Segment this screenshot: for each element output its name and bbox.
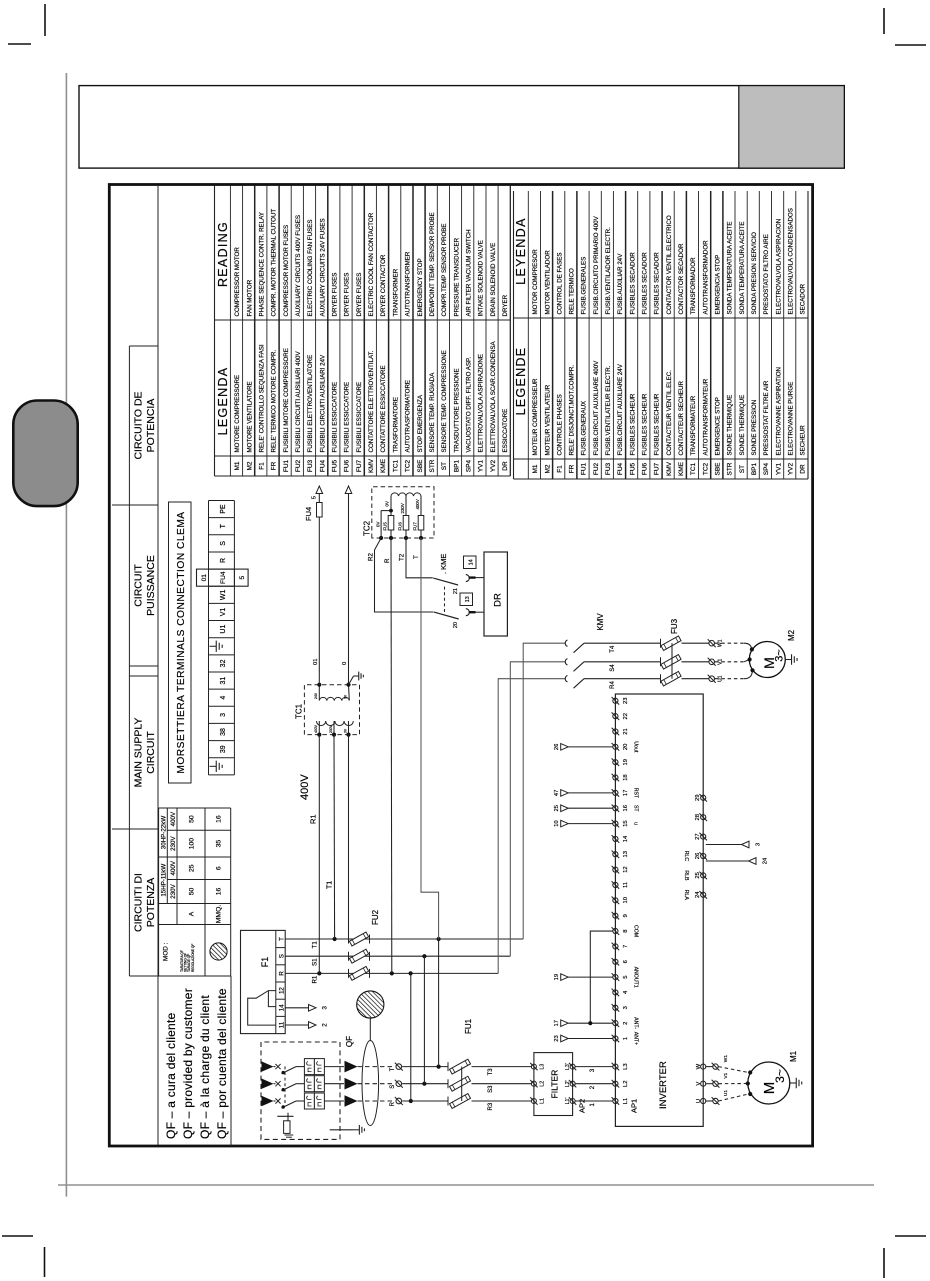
wire to point 25 bbox=[554, 805, 613, 812]
svg-text:ELECTRIC COOL FAN CONTACTOR: ELECTRIC COOL FAN CONTACTOR bbox=[368, 212, 375, 316]
svg-text:FR: FR bbox=[569, 464, 576, 473]
svg-text:INTAKE SOLENOID VALVE: INTAKE SOLENOID VALVE bbox=[478, 240, 485, 316]
svg-text:DR: DR bbox=[800, 464, 807, 474]
svg-text:COMPR. MOTOR THERMAL CUTOUT: COMPR. MOTOR THERMAL CUTOUT bbox=[271, 209, 278, 317]
svg-text:FUSIBLES SECADOR: FUSIBLES SECADOR bbox=[642, 252, 649, 315]
svg-text:FU5: FU5 bbox=[383, 522, 388, 531]
fuse bank FU2 bbox=[349, 932, 370, 980]
svg-text:READING: READING bbox=[216, 221, 230, 287]
svg-text:MOD :: MOD : bbox=[163, 942, 170, 961]
filter to inverter wires 1 2 3 bbox=[575, 1067, 612, 1107]
svg-text:AUTOTRANSFORMADOR: AUTOTRANSFORMADOR bbox=[702, 240, 709, 315]
svg-text:SENSORE TEMP. RUGIADA: SENSORE TEMP. RUGIADA bbox=[429, 372, 436, 453]
svg-text:TRANSFORMER: TRANSFORMER bbox=[392, 268, 399, 316]
fan motor M2 bbox=[749, 642, 785, 678]
svg-text:FILTER: FILTER bbox=[550, 1070, 560, 1099]
supply lead S with isolation point bbox=[358, 1080, 449, 1089]
section label CIRCUIT PUISSANCE bbox=[133, 555, 158, 616]
transformer TC1 bbox=[304, 683, 359, 737]
KME terminal 13 box bbox=[460, 593, 473, 606]
wire R1 (F1 to FU2 to KMV) bbox=[285, 972, 498, 974]
M2 terminals U1 V1 W1 bbox=[708, 639, 724, 683]
svg-text:ST: ST bbox=[633, 805, 639, 812]
svg-text:11: 11 bbox=[623, 882, 629, 888]
svg-text:COMPRESSOR MOTOR: COMPRESSOR MOTOR bbox=[234, 247, 241, 317]
svg-text:BP1: BP1 bbox=[751, 462, 758, 475]
svg-text:T: T bbox=[220, 523, 227, 528]
svg-text:AUXILIARY CIRCUITS 24V FUSES: AUXILIARY CIRCUITS 24V FUSES bbox=[319, 218, 326, 316]
svg-text:R1: R1 bbox=[312, 975, 319, 983]
fuse bank FU3 bbox=[661, 636, 709, 686]
svg-text:SONDE THERMIQUE: SONDE THERMIQUE bbox=[739, 395, 746, 456]
QF notes text bbox=[164, 988, 229, 1139]
svg-text:ELETTROVALVOLA ASPIRAZIONE: ELETTROVALVOLA ASPIRAZIONE bbox=[478, 354, 485, 452]
cable table text bbox=[160, 811, 222, 923]
svg-text:ELECTRIC COOLING FAN FUSES: ELECTRIC COOLING FAN FUSES bbox=[307, 220, 314, 317]
relay stub wires 24 / 3 bbox=[706, 841, 769, 864]
QF handle linkage ellipse bbox=[362, 1041, 379, 1126]
svg-text:STOP EMERGENZA: STOP EMERGENZA bbox=[417, 394, 424, 452]
svg-text:22: 22 bbox=[623, 713, 629, 719]
section label CIRCUITI DI POTENZA bbox=[133, 873, 158, 932]
svg-text:KMV: KMV bbox=[596, 613, 605, 631]
svg-text:FU7: FU7 bbox=[413, 522, 418, 531]
svg-text:SONDE THERMIQUE: SONDE THERMIQUE bbox=[727, 395, 734, 456]
svg-text:FUSIBILI ESSICCATORE: FUSIBILI ESSICCATORE bbox=[332, 382, 339, 453]
inverter AP1 box bbox=[615, 694, 703, 1126]
svg-text:MOTOR COMPRESOR: MOTOR COMPRESOR bbox=[532, 249, 539, 315]
svg-text:S: S bbox=[278, 954, 285, 958]
svg-text:MORSETTIERA TERMINALS CONNECTI: MORSETTIERA TERMINALS CONNECTION CLEMA bbox=[176, 511, 187, 773]
svg-text:SBE: SBE bbox=[715, 462, 722, 476]
svg-text:STR: STR bbox=[429, 459, 436, 472]
KMV contact S4 bbox=[565, 659, 660, 672]
svg-text:KMV: KMV bbox=[666, 461, 673, 476]
svg-text:YV2: YV2 bbox=[490, 459, 497, 472]
schematic sheet border bbox=[109, 185, 812, 1147]
svg-text:18: 18 bbox=[623, 774, 629, 780]
svg-text:TC2: TC2 bbox=[405, 459, 412, 472]
svg-text:13: 13 bbox=[623, 851, 629, 857]
svg-text:25: 25 bbox=[554, 805, 560, 811]
svg-text:ST: ST bbox=[739, 465, 746, 473]
svg-text:EMERGENCY STOP: EMERGENCY STOP bbox=[417, 258, 424, 316]
svg-text:L3': L3' bbox=[565, 1063, 571, 1070]
svg-text:A: A bbox=[189, 911, 196, 916]
circuit breaker QF dashed enclosure bbox=[261, 1042, 340, 1139]
svg-text:15: 15 bbox=[623, 820, 629, 826]
svg-text:TC1: TC1 bbox=[295, 703, 304, 719]
svg-text:L1: L1 bbox=[540, 1098, 546, 1104]
wire to point 17 bbox=[554, 1020, 613, 1027]
svg-text:CONTACTEUR VENTIL.ELEC.: CONTACTEUR VENTIL.ELEC. bbox=[666, 370, 673, 456]
svg-text:QF – a cura del cliente: QF – a cura del cliente bbox=[164, 1012, 178, 1139]
svg-text:W1: W1 bbox=[220, 589, 227, 600]
wire labels R3 S3 T3 bbox=[488, 1068, 494, 1111]
svg-text:FUSIB.CIRCUIT AUXILIARE 24V: FUSIB.CIRCUIT AUXILIARE 24V bbox=[617, 363, 624, 455]
svg-text:FU4: FU4 bbox=[304, 507, 313, 521]
svg-text:F1: F1 bbox=[556, 465, 563, 473]
svg-text:FUSIBILI ESSICCATORE: FUSIBILI ESSICCATORE bbox=[356, 382, 363, 453]
QF earth lead and ground bbox=[330, 1125, 365, 1135]
svg-text:TRANSFORMADOR: TRANSFORMADOR bbox=[690, 257, 697, 315]
KMV contact R4 bbox=[565, 676, 660, 689]
legend table LEGENDE/LEYENDA bbox=[514, 191, 809, 479]
svg-text:16: 16 bbox=[623, 805, 629, 811]
svg-text:0V: 0V bbox=[344, 728, 348, 733]
svg-text:S1: S1 bbox=[312, 958, 319, 966]
svg-text:FU5: FU5 bbox=[332, 459, 339, 472]
svg-text:CIRCUIT: CIRCUIT bbox=[133, 564, 145, 607]
wire R (TC2 to R1 junction) bbox=[384, 538, 392, 973]
svg-text:FUSIBLES SECADOR: FUSIBLES SECADOR bbox=[654, 252, 661, 315]
svg-text:2: 2 bbox=[623, 1022, 629, 1025]
svg-text:T1: T1 bbox=[312, 941, 319, 949]
svg-text:QF – à la charge du client: QF – à la charge du client bbox=[198, 995, 212, 1139]
autotransformer TC2 bbox=[372, 487, 434, 540]
svg-text:BP1: BP1 bbox=[453, 459, 460, 472]
svg-text:FU6: FU6 bbox=[398, 522, 403, 531]
svg-text:T: T bbox=[390, 1067, 396, 1071]
svg-text:FU4: FU4 bbox=[220, 571, 227, 584]
svg-text:M1: M1 bbox=[532, 464, 539, 473]
svg-text:ELECTROVANNE ASPIRATION: ELECTROVANNE ASPIRATION bbox=[775, 367, 782, 455]
svg-text:VACUOSTATO DIFF. FILTRO ASP.: VACUOSTATO DIFF. FILTRO ASP. bbox=[465, 357, 472, 453]
svg-text:RELE TERMICO: RELE TERMICO bbox=[569, 268, 576, 314]
svg-text:DRYER: DRYER bbox=[502, 294, 509, 316]
wire to point 23 bbox=[554, 1035, 613, 1042]
svg-text:15HP-11kW: 15HP-11kW bbox=[160, 864, 167, 897]
svg-text:24: 24 bbox=[695, 891, 701, 898]
QF customer notes box bbox=[159, 976, 231, 1146]
wire T1 bbox=[285, 938, 523, 940]
svg-text:FU3: FU3 bbox=[605, 462, 612, 475]
svg-text:1: 1 bbox=[623, 1037, 629, 1040]
svg-text:400V: 400V bbox=[415, 499, 420, 509]
svg-text:DRAIN SOLENOID VALVE: DRAIN SOLENOID VALVE bbox=[490, 243, 497, 317]
svg-text:ELECTROVANNE PURGE: ELECTROVANNE PURGE bbox=[788, 382, 795, 456]
svg-text:230V: 230V bbox=[170, 836, 177, 851]
svg-text:RELE' CONTROLLO SEQUENZA FASI: RELE' CONTROLLO SEQUENZA FASI bbox=[259, 344, 266, 452]
svg-text:ELECTROVALVOLA ASPIRACION: ELECTROVALVOLA ASPIRACION bbox=[775, 219, 782, 315]
svg-text:TC2: TC2 bbox=[363, 520, 372, 536]
svg-text:26: 26 bbox=[695, 853, 701, 859]
svg-text:RLA: RLA bbox=[683, 890, 689, 901]
svg-text:100: 100 bbox=[189, 838, 196, 850]
junction dots on supply rails bbox=[409, 1099, 413, 1103]
svg-text:FUSIBILI ELETTROVENTILATORE: FUSIBILI ELETTROVENTILATORE bbox=[307, 355, 314, 453]
svg-text:3: 3 bbox=[756, 843, 762, 846]
svg-text:INVERTER: INVERTER bbox=[658, 1061, 669, 1109]
svg-text:39: 39 bbox=[220, 745, 227, 753]
wire labels R1 S1 T1 bbox=[312, 941, 319, 984]
COM link wire bbox=[588, 931, 613, 1025]
phase sequence relay F1 bbox=[241, 930, 286, 1033]
svg-text:24V: 24V bbox=[314, 692, 318, 699]
MOD cell bbox=[163, 942, 195, 972]
svg-text:CONTACTEUR SECHEUR: CONTACTEUR SECHEUR bbox=[678, 380, 685, 455]
svg-text:R3: R3 bbox=[488, 1102, 494, 1110]
svg-text:12: 12 bbox=[623, 866, 629, 872]
svg-text:KMV: KMV bbox=[368, 458, 375, 473]
contactor KME contact 21 bbox=[433, 575, 484, 595]
svg-text:30HP-22kW: 30HP-22kW bbox=[160, 816, 167, 850]
svg-text:MMQ.: MMQ. bbox=[216, 905, 223, 924]
svg-text:S3: S3 bbox=[488, 1085, 494, 1093]
relay terminals 24-29 bbox=[683, 794, 707, 900]
svg-text:YV1: YV1 bbox=[775, 462, 782, 475]
svg-text:23: 23 bbox=[554, 1035, 560, 1041]
svg-text:SONDE PRESSION: SONDE PRESSION bbox=[751, 400, 758, 456]
svg-text:FU5: FU5 bbox=[629, 462, 636, 475]
svg-text:MOTEUR COMPRESSEUR: MOTEUR COMPRESSEUR bbox=[532, 378, 539, 456]
svg-text:AUXILIARY CIRCUITS 400V FUSES: AUXILIARY CIRCUITS 400V FUSES bbox=[295, 215, 302, 317]
svg-text:QF – provided by customer: QF – provided by customer bbox=[181, 988, 195, 1139]
TC1 feed lines bbox=[319, 735, 348, 974]
FU4 terminal block (01/FU4/5) bbox=[197, 569, 249, 586]
svg-text:31: 31 bbox=[220, 677, 227, 685]
svg-text:S: S bbox=[390, 1085, 396, 1089]
svg-text:DRYER FUSES: DRYER FUSES bbox=[332, 273, 339, 317]
svg-text:M2: M2 bbox=[787, 629, 796, 641]
svg-text:0: 0 bbox=[342, 662, 348, 665]
svg-text:MOTOR VENTILADOR: MOTOR VENTILADOR bbox=[544, 250, 551, 315]
svg-text:FUSIBLES SECHEUR: FUSIBLES SECHEUR bbox=[629, 393, 636, 455]
svg-text:L2': L2' bbox=[565, 1080, 571, 1087]
svg-text:FU1: FU1 bbox=[464, 1018, 473, 1034]
svg-text:SONDA PRESION SERVICIO: SONDA PRESION SERVICIO bbox=[751, 232, 758, 315]
svg-text:5: 5 bbox=[239, 576, 246, 580]
svg-text:RLC: RLC bbox=[683, 851, 689, 862]
svg-text:KME: KME bbox=[678, 461, 685, 476]
svg-text:38: 38 bbox=[220, 728, 227, 736]
svg-text:14: 14 bbox=[623, 835, 629, 842]
svg-text:0V: 0V bbox=[344, 694, 348, 699]
svg-text:8: 8 bbox=[623, 929, 629, 932]
svg-text:M2: M2 bbox=[246, 461, 253, 470]
svg-text:11: 11 bbox=[278, 1021, 285, 1028]
svg-text:FU4: FU4 bbox=[319, 459, 326, 472]
svg-text:CIRCUIT: CIRCUIT bbox=[145, 731, 157, 774]
svg-text:FUSIBILI CIRCUITI AUSILIARI 40: FUSIBILI CIRCUITI AUSILIARI 400V bbox=[295, 351, 302, 453]
svg-text:25: 25 bbox=[695, 872, 701, 878]
cable size table bbox=[159, 808, 231, 976]
terminal block title box bbox=[169, 502, 192, 783]
svg-text:Uout: Uout bbox=[633, 741, 639, 753]
svg-text:CONTACTOR SECADOR: CONTACTOR SECADOR bbox=[678, 243, 685, 314]
svg-text:47: 47 bbox=[554, 790, 560, 796]
svg-text:10: 10 bbox=[554, 820, 560, 826]
svg-text:SECHEUR: SECHEUR bbox=[800, 425, 807, 456]
inverter control terminals 1-23 bbox=[612, 697, 639, 1045]
svg-text:FUSIBLES SECHEUR: FUSIBLES SECHEUR bbox=[654, 393, 661, 455]
svg-text:50: 50 bbox=[189, 815, 196, 823]
junction dots FU2 area bbox=[317, 937, 441, 976]
QF pole T: supply arrow, contact, fuse links bbox=[262, 1059, 358, 1075]
svg-text:V1: V1 bbox=[220, 608, 227, 617]
svg-text:T2: T2 bbox=[399, 553, 406, 561]
line filter AP2 bbox=[530, 1053, 576, 1116]
svg-text:M2: M2 bbox=[544, 464, 551, 473]
svg-text:SP4: SP4 bbox=[763, 462, 770, 475]
svg-text:FU2: FU2 bbox=[593, 462, 600, 475]
svg-text:FUSIB.CIRCUIT AUXILIARE 400V: FUSIB.CIRCUIT AUXILIARE 400V bbox=[593, 360, 600, 456]
svg-text:FU2: FU2 bbox=[295, 459, 302, 472]
svg-text:EMERGENCE STOP: EMERGENCE STOP bbox=[715, 397, 722, 455]
svg-text:QF: QF bbox=[345, 1036, 354, 1047]
svg-text:14: 14 bbox=[469, 559, 475, 565]
svg-text:32: 32 bbox=[220, 659, 227, 667]
M1 ground bbox=[790, 1082, 796, 1084]
svg-text:01: 01 bbox=[313, 659, 319, 665]
svg-text:FU6: FU6 bbox=[642, 462, 649, 475]
svg-text:230V: 230V bbox=[329, 724, 333, 733]
svg-text:S4: S4 bbox=[610, 664, 616, 672]
section label CIRCUITO DE POTENCIA bbox=[133, 391, 158, 459]
svg-text:3: 3 bbox=[220, 713, 227, 717]
svg-text:FU1: FU1 bbox=[581, 462, 588, 475]
svg-text:YV1: YV1 bbox=[478, 459, 485, 472]
header box bbox=[79, 86, 844, 169]
svg-text:. KME: . KME bbox=[439, 554, 448, 574]
svg-text:EMERGENCIA STOP: EMERGENCIA STOP bbox=[715, 255, 722, 315]
svg-text:400V: 400V bbox=[314, 724, 318, 733]
svg-text:M1: M1 bbox=[234, 461, 241, 470]
svg-text:16: 16 bbox=[216, 815, 223, 823]
wire S1 bbox=[285, 955, 510, 957]
svg-text:AUTOTRANSFORMATEUR: AUTOTRANSFORMATEUR bbox=[702, 378, 709, 455]
svg-text:28: 28 bbox=[695, 814, 701, 820]
svg-text:400V: 400V bbox=[299, 774, 311, 800]
QF pole S: supply arrow, contact, fuse links bbox=[262, 1076, 358, 1092]
header gray block bbox=[739, 86, 845, 169]
svg-text:SBE: SBE bbox=[417, 459, 424, 473]
svg-text:FU3: FU3 bbox=[670, 618, 679, 634]
svg-text:TRASDUTTORE PRESSIONE: TRASDUTTORE PRESSIONE bbox=[453, 368, 460, 452]
svg-text:FR: FR bbox=[271, 461, 278, 470]
wire label R1 400V bbox=[299, 774, 318, 824]
svg-text:COMPRESSOR MOTOR FUSES: COMPRESSOR MOTOR FUSES bbox=[283, 225, 290, 317]
svg-text:230V: 230V bbox=[170, 883, 177, 898]
svg-text:DRYER FUSES: DRYER FUSES bbox=[356, 273, 363, 317]
wire to point 26 bbox=[554, 744, 613, 751]
svg-text:R: R bbox=[278, 971, 285, 976]
svg-text:DRYER CONTACTOR: DRYER CONTACTOR bbox=[380, 254, 387, 316]
svg-text:50: 50 bbox=[189, 888, 196, 896]
wire to point 47 bbox=[554, 790, 613, 797]
svg-text:PE: PE bbox=[220, 504, 227, 514]
svg-text:TC1: TC1 bbox=[690, 462, 697, 475]
svg-text:R2: R2 bbox=[368, 553, 375, 561]
wire 01/5 with fuse FU4 bbox=[312, 486, 323, 685]
svg-text:DEWPOINT TEMP. SENSOR PROBE: DEWPOINT TEMP. SENSOR PROBE bbox=[429, 212, 436, 316]
svg-text:FU6: FU6 bbox=[344, 459, 351, 472]
svg-text:CONTATTORE ELETTROVENTILAT.: CONTATTORE ELETTROVENTILAT. bbox=[368, 350, 375, 452]
section strip boxes bbox=[112, 346, 231, 976]
svg-text:RST: RST bbox=[633, 788, 639, 799]
svg-text:3~: 3~ bbox=[774, 649, 786, 662]
svg-text:2: 2 bbox=[322, 1023, 329, 1027]
svg-text:FU3: FU3 bbox=[307, 459, 314, 472]
KMV contact T4 bbox=[565, 640, 660, 653]
svg-text:CONTATTORE ESSICCATORE: CONTATTORE ESSICCATORE bbox=[380, 365, 387, 452]
svg-text:L3: L3 bbox=[623, 1063, 629, 1069]
svg-text:5: 5 bbox=[623, 975, 629, 978]
svg-text:19: 19 bbox=[623, 759, 629, 765]
wire R2 to KME bbox=[368, 538, 434, 612]
svg-text:SENSORE TEMP. COMPRESSIONE: SENSORE TEMP. COMPRESSIONE bbox=[441, 350, 448, 452]
M1 motor leads (dashed) bbox=[719, 1067, 753, 1101]
KME terminal 14 box bbox=[464, 556, 477, 569]
svg-text:L1': L1' bbox=[565, 1098, 571, 1105]
svg-text:ELETTROVALVOLA SCAR.CONDENSA: ELETTROVALVOLA SCAR.CONDENSA bbox=[490, 340, 497, 452]
svg-text:PRESSURE TRANSDUCER: PRESSURE TRANSDUCER bbox=[453, 237, 460, 316]
svg-text:6: 6 bbox=[623, 960, 629, 963]
M2 motor leads (dashed) bbox=[715, 643, 755, 679]
svg-text:RELE' TERMICO MOTORE COMPR.: RELE' TERMICO MOTORE COMPR. bbox=[271, 350, 278, 453]
svg-text:TRANSFORMATEUR: TRANSFORMATEUR bbox=[690, 395, 697, 455]
svg-text:FUSIB.CIRCUITO PRIMARIO 400V: FUSIB.CIRCUITO PRIMARIO 400V bbox=[593, 215, 600, 314]
svg-text:R: R bbox=[220, 558, 227, 563]
svg-text:5: 5 bbox=[312, 496, 318, 499]
QF motor operator (hatched circle) bbox=[357, 991, 384, 1041]
svg-text:FU4: FU4 bbox=[617, 462, 624, 475]
margin guide lines (gray) bbox=[58, 73, 874, 1197]
svg-text:REGOLAZIONE QF: REGOLAZIONE QF bbox=[191, 944, 195, 972]
wire to point 19 bbox=[554, 974, 613, 981]
svg-text:MOTORE VENTILATORE: MOTORE VENTILATORE bbox=[246, 381, 253, 452]
svg-text:DR: DR bbox=[493, 593, 504, 607]
fuse bank FU1 bbox=[448, 1059, 531, 1108]
svg-text:AUTOTRASFORMATORE: AUTOTRASFORMATORE bbox=[405, 380, 412, 453]
svg-text:FUSIB.GENERALES: FUSIB.GENERALES bbox=[581, 257, 588, 315]
svg-text:PHASE SEQUENCE CONTR. RELAY: PHASE SEQUENCE CONTR. RELAY bbox=[259, 212, 266, 316]
svg-text:R4: R4 bbox=[610, 681, 616, 689]
svg-text:LEGENDA: LEGENDA bbox=[216, 367, 230, 436]
svg-text:3: 3 bbox=[623, 1006, 629, 1009]
svg-text:ELECTROVALVOLA CONDENSADOS: ELECTROVALVOLA CONDENSADOS bbox=[788, 208, 795, 314]
svg-text:0V: 0V bbox=[385, 501, 390, 506]
svg-text:AUTOTRANSFORMER: AUTOTRANSFORMER bbox=[405, 251, 412, 316]
svg-text:FU7: FU7 bbox=[356, 459, 363, 472]
svg-text:R: R bbox=[390, 1101, 396, 1106]
fan contactor KMV feed wires bbox=[498, 643, 565, 973]
QF undervoltage release bbox=[277, 1113, 293, 1138]
inverter output terminals U V W bbox=[696, 1055, 729, 1105]
rail drop links bbox=[411, 939, 439, 1101]
svg-text:01: 01 bbox=[201, 574, 208, 582]
dryer unit DR bbox=[484, 552, 507, 636]
svg-text:230V: 230V bbox=[400, 503, 405, 513]
svg-text:TC2: TC2 bbox=[702, 462, 709, 475]
svg-text:6: 6 bbox=[216, 866, 223, 870]
svg-text:YV2: YV2 bbox=[788, 462, 795, 475]
svg-text:F1: F1 bbox=[260, 957, 270, 968]
svg-text:STR: STR bbox=[727, 462, 734, 475]
svg-text:400V: 400V bbox=[170, 860, 177, 875]
svg-text:ST: ST bbox=[441, 462, 448, 470]
svg-text:13: 13 bbox=[465, 596, 471, 602]
svg-text:10: 10 bbox=[623, 897, 629, 903]
svg-text:4: 4 bbox=[220, 696, 227, 700]
svg-text:0V: 0V bbox=[375, 522, 380, 527]
svg-text:U1: U1 bbox=[723, 1090, 729, 1096]
svg-text:W1: W1 bbox=[723, 1055, 729, 1063]
QF poles mechanical link (dashed) bbox=[284, 1066, 286, 1103]
section strip long rule bbox=[157, 186, 159, 1145]
svg-text:FUSIBILI MOTORE COMPRESSORE: FUSIBILI MOTORE COMPRESSORE bbox=[283, 348, 290, 452]
svg-text:M1: M1 bbox=[789, 1050, 798, 1062]
